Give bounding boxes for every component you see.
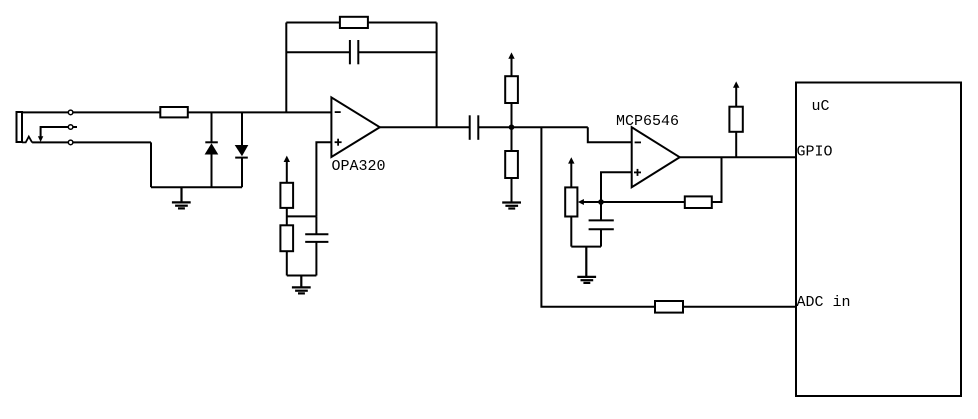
jack contact circle bottom [68,140,73,145]
wire feedback top [286,22,340,24]
power arrow V4 [733,81,739,106]
diode D2 [235,112,249,187]
wire R5 to node [511,103,513,127]
svg-text:OPA320: OPA320 [332,158,386,175]
svg-text:GPIO: GPIO [797,144,833,161]
resistor R10 pull-up [729,107,742,132]
resistor R3 [280,183,293,208]
capacitor C3 [305,216,328,275]
comparator U2 [632,127,680,187]
wire top contact [22,111,160,113]
node dot [509,124,515,130]
ground [292,276,311,294]
wire hysteresis from plus node [601,201,685,203]
resistor R9 ADC series [655,301,683,313]
jack tip spring [22,137,32,143]
audio jack J1 body [17,112,23,142]
node dot [598,199,604,205]
jack contact circle top [68,110,73,115]
potentiometer wiper arrow [578,199,601,205]
resistor R8 hysteresis [685,196,712,208]
wire R1 to opamp [188,111,332,113]
wire cap branch left [286,51,350,53]
wire node down to ADC row [541,127,655,307]
wire hysteresis to output [712,157,722,202]
uC box [796,83,961,397]
wire bottom contact [32,141,151,143]
svg-text:MCP6546: MCP6546 [616,113,679,130]
ground [577,247,596,283]
wire middle contact [41,127,77,137]
power arrow V2 [508,52,514,76]
jack switch arrow [38,136,43,142]
wire divider node [287,215,317,217]
op-amp minus pin mark [335,111,341,113]
op-amp U1 [331,97,379,157]
resistor R1 [160,107,188,117]
svg-text:ADC in: ADC in [797,294,851,311]
wire C2 to node [478,126,588,128]
ground [172,187,191,208]
power arrow V1 [284,156,290,183]
wire rail [571,246,601,248]
wire feedback right vertical [436,23,438,128]
wire R4 down [286,251,288,275]
wire jack sleeve down [150,142,152,187]
wire pot bottom [570,217,572,247]
resistor R5 pull-up [505,76,518,103]
wire opamp output [380,126,470,128]
wire R6 to ground [511,178,513,203]
capacitor C2 coupling [470,115,479,140]
capacitor C4 [589,202,614,247]
wire node to comparator minus (step) [588,127,632,142]
wire bottom rail [287,275,317,277]
svg-text:uC: uC [812,98,830,115]
wire R9 to uC [683,306,796,308]
comparator plus pin mark [634,169,641,176]
resistor R6 pull-down [505,151,518,178]
wire comparator plus input [601,172,632,202]
op-amp plus pin mark [335,139,342,146]
wire R10 to output line [735,132,737,157]
capacitor C1 feedback [350,40,358,64]
jack contact circle middle [68,125,73,130]
wire ground rail [151,186,242,188]
comparator minus pin mark [635,141,641,143]
wire feedback left vertical [285,23,287,113]
diode D1 [205,112,219,187]
wire R3 to node [286,208,288,225]
wire comparator output [680,156,796,158]
wire node to R6 [511,127,513,151]
potentiometer R7 body [565,187,577,216]
wire feedback top right [368,22,437,24]
wire opamp plus input [316,142,331,216]
wire cap branch right [358,51,436,53]
resistor R4 [280,225,293,251]
power arrow V3 [568,157,574,187]
resistor R2 feedback [340,17,368,28]
ground [502,203,521,209]
